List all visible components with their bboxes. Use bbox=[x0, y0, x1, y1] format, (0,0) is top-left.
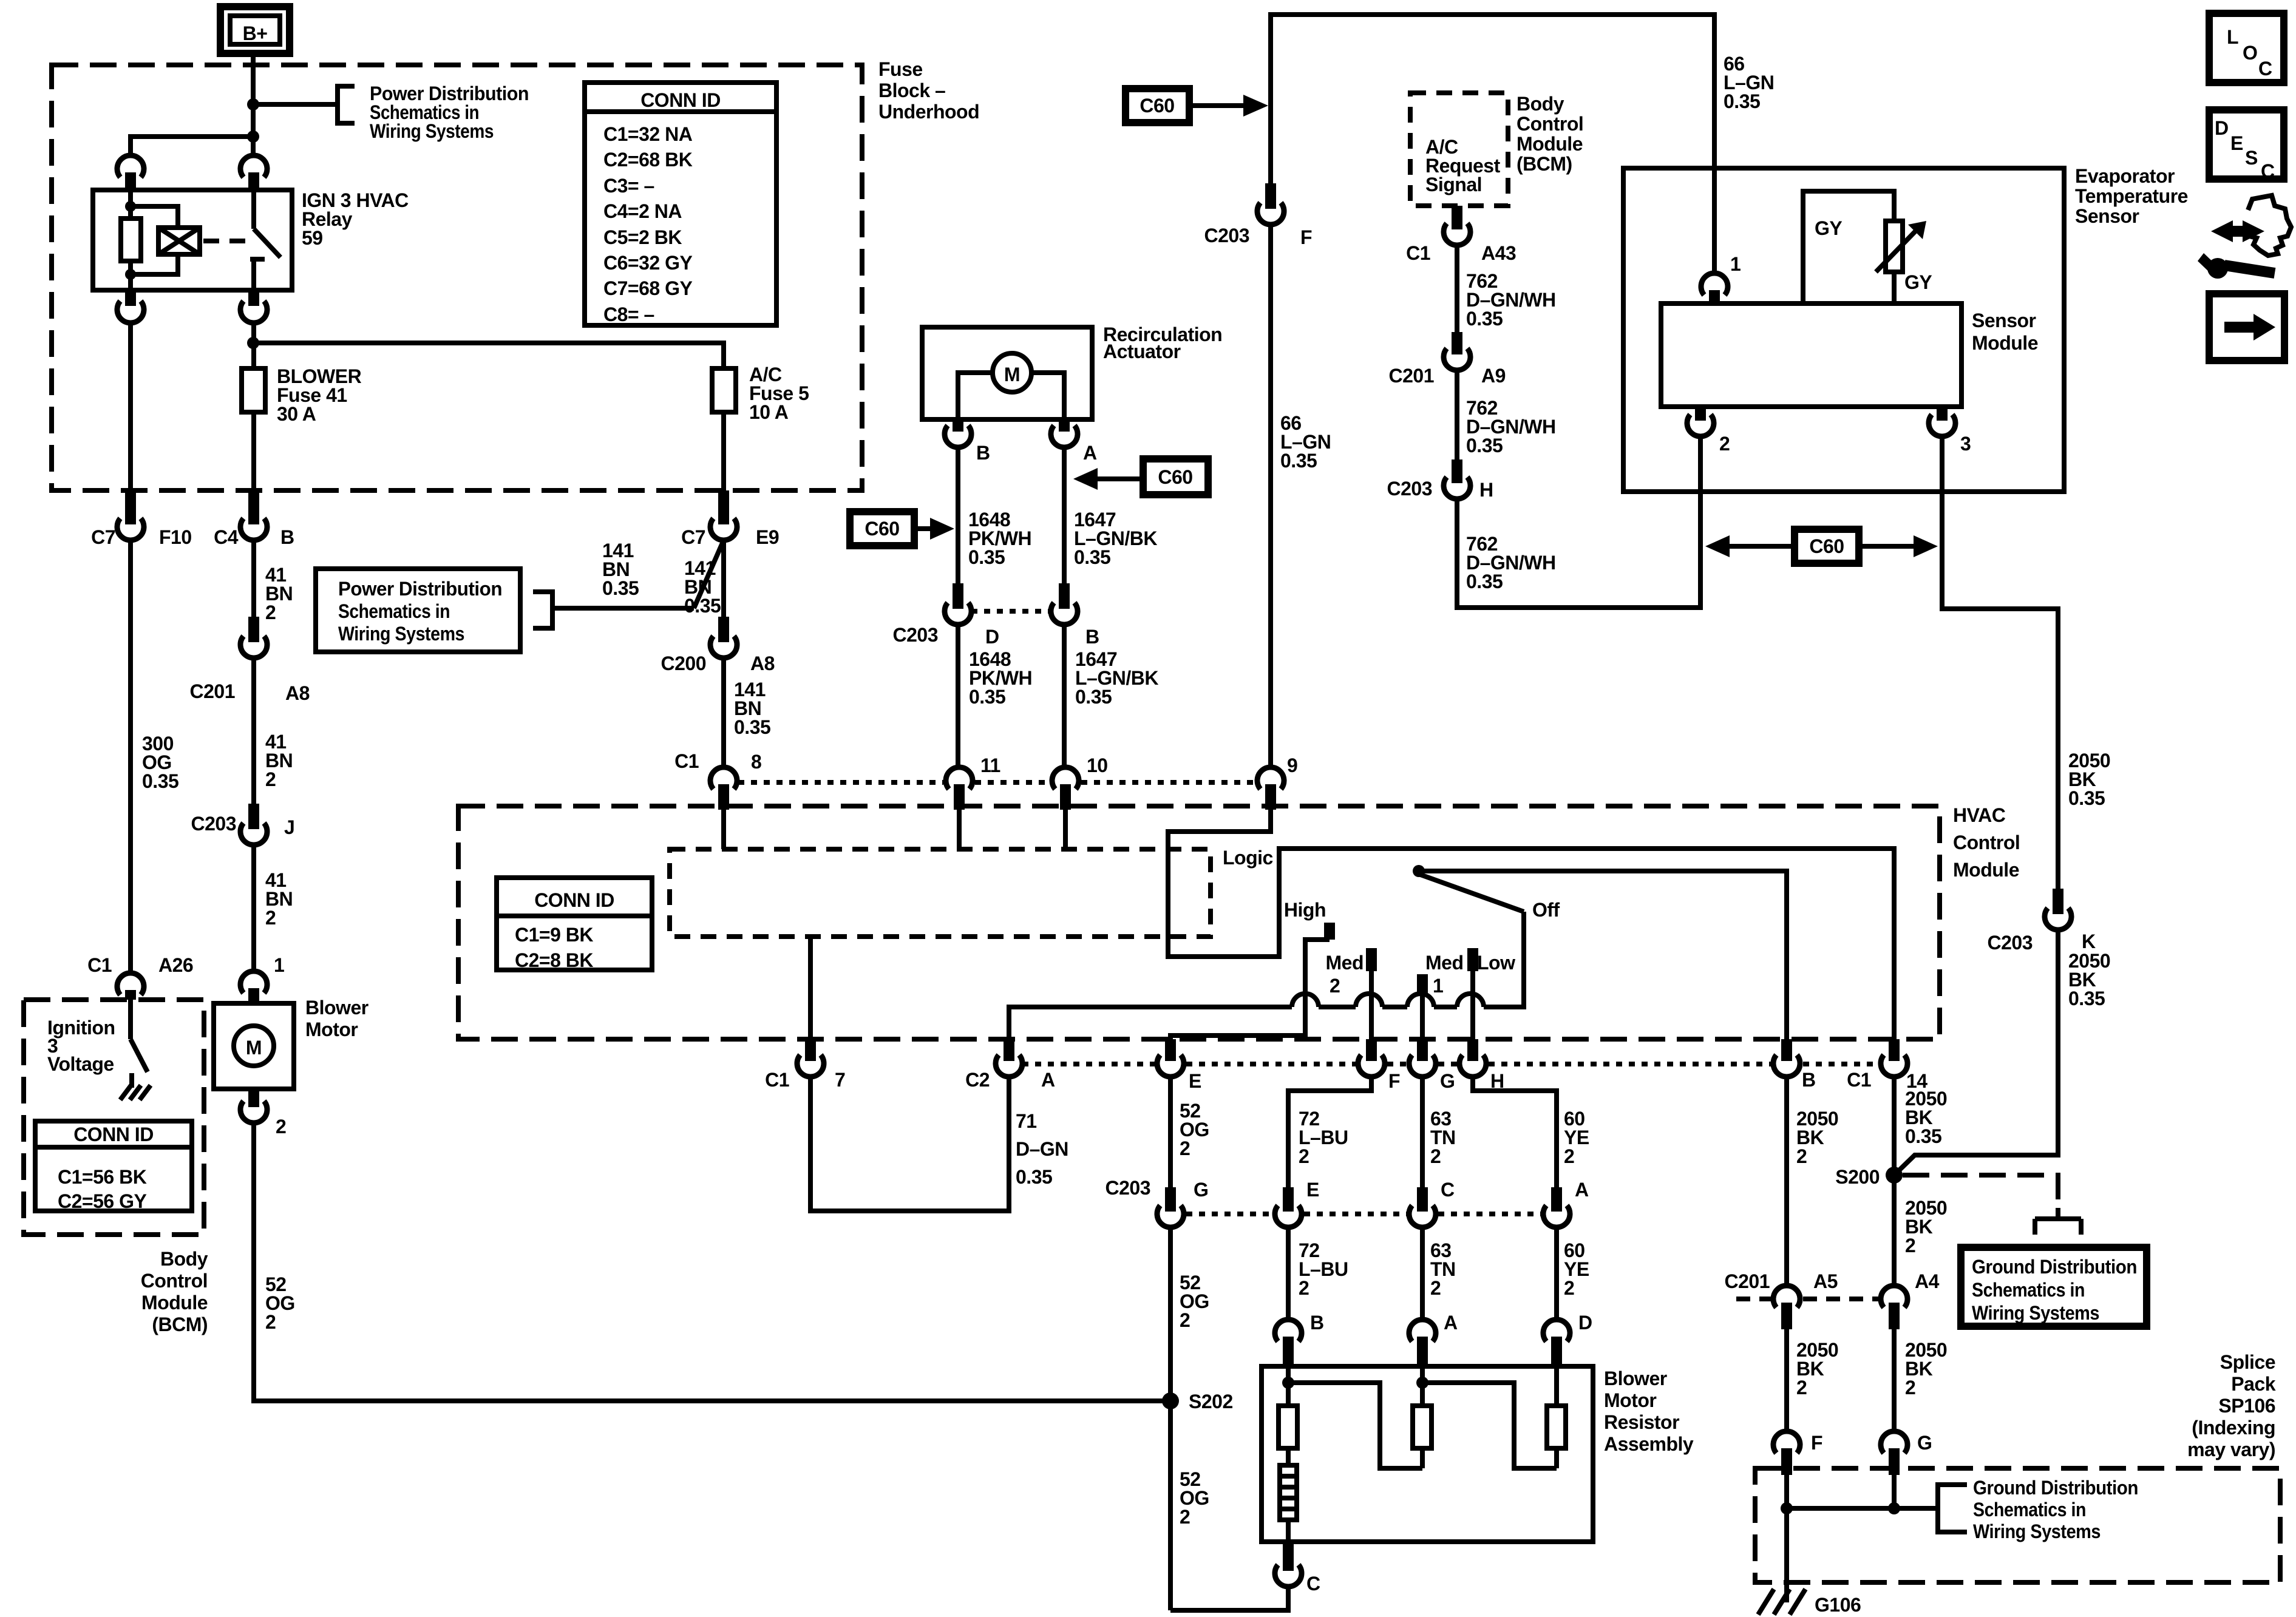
svg-text:E: E bbox=[1306, 1179, 1319, 1201]
svg-text:A26: A26 bbox=[158, 954, 193, 976]
node splice S202 bbox=[1162, 1392, 1179, 1409]
svg-text:Ground Distribution: Ground Distribution bbox=[1973, 1477, 2138, 1499]
svg-text:0.35: 0.35 bbox=[142, 770, 178, 792]
svg-text:Off: Off bbox=[1532, 899, 1560, 921]
svg-text:Splice: Splice bbox=[2220, 1351, 2275, 1373]
connector C203 pin G bbox=[1106, 1177, 1209, 1227]
svg-text:9: 9 bbox=[1287, 754, 1297, 776]
svg-text:Ground Distribution: Ground Distribution bbox=[1972, 1256, 2137, 1278]
label 2050 BK 2 (B) bbox=[1796, 1108, 1838, 1167]
svg-text:C203: C203 bbox=[1204, 225, 1250, 246]
svg-text:D: D bbox=[2215, 117, 2229, 139]
svg-text:F: F bbox=[1300, 226, 1312, 248]
svg-text:A4: A4 bbox=[1915, 1270, 1940, 1292]
label 41 BN 2 (1) bbox=[265, 564, 293, 623]
connector sensor pin 3 bbox=[1929, 407, 1971, 455]
svg-text:E9: E9 bbox=[756, 526, 779, 548]
svg-text:L: L bbox=[2227, 26, 2238, 48]
svg-text:Block –: Block – bbox=[878, 80, 945, 101]
label High bbox=[1284, 899, 1326, 921]
connector C203 pin C bbox=[1409, 1179, 1455, 1227]
label 52 OG 2 (mid) bbox=[1180, 1272, 1209, 1331]
logic dashed box bbox=[670, 849, 1211, 937]
svg-text:Blower: Blower bbox=[1604, 1368, 1667, 1389]
relay coil winding symbol bbox=[131, 206, 200, 274]
svg-text:1: 1 bbox=[1433, 975, 1443, 997]
connector resistor pin A bbox=[1409, 1312, 1458, 1366]
label 2050 BK 2 (F) bbox=[1796, 1339, 1838, 1398]
wire 141 BN vertical bbox=[721, 540, 726, 617]
wire to power distribution reference bbox=[253, 102, 338, 107]
connector C200/A8 bbox=[661, 617, 775, 674]
high contact wire bbox=[1170, 923, 1330, 1039]
CONN ID table fuse block bbox=[585, 83, 776, 325]
svg-text:1: 1 bbox=[1730, 253, 1741, 275]
svg-text:2: 2 bbox=[1180, 1506, 1190, 1528]
svg-text:G: G bbox=[1440, 1070, 1455, 1092]
svg-text:CONN ID: CONN ID bbox=[73, 1124, 154, 1145]
wire pivot to pin B bbox=[1419, 871, 1787, 1039]
svg-text:0.35: 0.35 bbox=[1466, 308, 1503, 330]
wire relay switch output down bbox=[251, 323, 256, 368]
label 14 2050 BK 0.35 bbox=[1905, 1088, 1947, 1147]
svg-text:2: 2 bbox=[265, 602, 276, 623]
recirculation actuator motor M bbox=[958, 353, 1064, 419]
relay switch bottom connector (87) bbox=[240, 290, 267, 323]
svg-text:C3= –: C3= – bbox=[603, 175, 654, 197]
label Logic bbox=[1223, 847, 1273, 869]
svg-text:2: 2 bbox=[265, 1311, 276, 1333]
label 63 TN 2 upper bbox=[1430, 1108, 1456, 1167]
wire logic to C1 pin 7 bbox=[808, 937, 813, 1039]
svg-text:Power Distribution: Power Distribution bbox=[338, 578, 502, 600]
svg-text:3: 3 bbox=[1960, 433, 1971, 455]
svg-text:Wiring Systems: Wiring Systems bbox=[1973, 1520, 2101, 1542]
bracket power distribution reference bbox=[338, 86, 355, 123]
power distribution schematics box bbox=[316, 569, 520, 652]
label 1647 L-GN/BK 0.35 lower bbox=[1075, 648, 1158, 708]
connector C203/K bbox=[1988, 889, 2096, 954]
wire 300 OG left column bbox=[128, 540, 133, 973]
BCM dashed box bbox=[24, 1000, 204, 1235]
svg-text:C203: C203 bbox=[1106, 1177, 1151, 1199]
label 52 OG 2 (E) bbox=[1180, 1100, 1209, 1159]
relay switch contact bbox=[250, 190, 280, 290]
ground distribution dashed box bbox=[1755, 1468, 2280, 1582]
connector HVAC pin 9 bbox=[1257, 754, 1297, 810]
label Sensor Module bbox=[1972, 310, 2038, 354]
svg-text:C60: C60 bbox=[1140, 95, 1174, 117]
svg-text:Motor: Motor bbox=[305, 1019, 358, 1040]
wire branch to relay coil bbox=[131, 137, 253, 155]
svg-text:71: 71 bbox=[1016, 1110, 1037, 1132]
low contact wire bbox=[1467, 948, 1478, 1039]
svg-text:A: A bbox=[1041, 1069, 1055, 1091]
wire 60 YE lower bbox=[1554, 1227, 1559, 1320]
A/C request signal dashed box bbox=[1410, 93, 1508, 206]
fuse A/C Fuse 5 10A bbox=[712, 368, 736, 412]
svg-text:High: High bbox=[1284, 899, 1326, 921]
svg-text:A: A bbox=[1575, 1179, 1589, 1201]
svg-text:C8= –: C8= – bbox=[603, 303, 654, 325]
svg-text:C: C bbox=[1441, 1179, 1455, 1201]
svg-text:D–GN: D–GN bbox=[1016, 1138, 1068, 1160]
node relay coil bottom junction bbox=[125, 269, 136, 280]
connector C1 pin 14 bbox=[1847, 1039, 1927, 1092]
C60 reference box top bbox=[1126, 89, 1189, 123]
svg-text:J: J bbox=[284, 816, 294, 838]
label Power Distribution Schematics in Wiring Systems bbox=[370, 83, 529, 142]
arrow C60 to wire 1648 bbox=[914, 518, 954, 540]
wire 52 OG to S202 bbox=[1168, 1227, 1173, 1610]
svg-text:SP106: SP106 bbox=[2218, 1395, 2275, 1417]
label 60 YE 2 lower bbox=[1564, 1239, 1589, 1299]
dashed wire S200 to ground reference bbox=[1903, 1175, 2058, 1208]
resistor R3 bbox=[1547, 1366, 1566, 1468]
svg-text:Module: Module bbox=[1972, 332, 2038, 354]
icon arrow box bbox=[2209, 294, 2284, 361]
icon wrench bbox=[2198, 253, 2275, 279]
svg-text:C201: C201 bbox=[1725, 1270, 1770, 1292]
wire 141 BN to HVAC bbox=[721, 658, 726, 767]
svg-text:A: A bbox=[1444, 1312, 1458, 1334]
svg-text:C7=68 GY: C7=68 GY bbox=[603, 277, 692, 299]
label 63 TN 2 lower bbox=[1430, 1239, 1456, 1299]
svg-text:2: 2 bbox=[265, 768, 276, 790]
label 52 OG 2 blower bbox=[265, 1273, 295, 1333]
wire relay coil output down bbox=[128, 323, 133, 490]
wire 63 TN lower bbox=[1420, 1227, 1425, 1320]
svg-text:A5: A5 bbox=[1813, 1270, 1838, 1292]
wire link B to R2 bbox=[1288, 1383, 1422, 1468]
C60 reference box right bbox=[1143, 459, 1208, 495]
svg-text:0.35: 0.35 bbox=[684, 595, 721, 617]
svg-text:C: C bbox=[1306, 1573, 1320, 1595]
ignition 3 voltage switch bbox=[131, 1000, 148, 1088]
label Evaporator Temperature Sensor bbox=[2075, 165, 2188, 227]
svg-text:S202: S202 bbox=[1189, 1391, 1233, 1412]
blower motor resistor assembly box bbox=[1262, 1366, 1593, 1542]
wire 762 segment 3 to sensor bbox=[1457, 436, 1700, 608]
svg-text:S: S bbox=[2245, 147, 2258, 169]
label Med 2 bbox=[1326, 952, 1364, 997]
node bus junction F bbox=[1781, 1502, 1793, 1514]
svg-text:(Indexing: (Indexing bbox=[2192, 1417, 2275, 1439]
svg-text:Assembly: Assembly bbox=[1604, 1433, 1694, 1455]
label 1648 PK/WH 0.35 lower bbox=[969, 648, 1032, 708]
svg-text:2: 2 bbox=[1564, 1145, 1574, 1167]
label Splice Pack SP106 bbox=[2187, 1351, 2276, 1460]
svg-text:0.35: 0.35 bbox=[2068, 988, 2105, 1009]
label Off bbox=[1532, 899, 1560, 921]
svg-text:B: B bbox=[1085, 626, 1099, 648]
connector C2 pin A bbox=[965, 1039, 1055, 1091]
fuse block underhood dashed box bbox=[52, 65, 862, 490]
label 2050 BK 2 (below S200) bbox=[1905, 1197, 1947, 1256]
svg-text:GY: GY bbox=[1815, 217, 1842, 239]
svg-text:Control: Control bbox=[1517, 113, 1583, 135]
connector C203/J bbox=[191, 804, 295, 845]
svg-text:0.35: 0.35 bbox=[969, 686, 1005, 708]
label GY right bbox=[1904, 271, 1932, 293]
evaporator temperature sensor box bbox=[1623, 168, 2064, 492]
connector C2 pin H bbox=[1459, 1039, 1504, 1092]
svg-text:CONN ID: CONN ID bbox=[534, 889, 614, 911]
connector C1/A43 bbox=[1406, 206, 1516, 264]
svg-text:0.35: 0.35 bbox=[1075, 686, 1112, 708]
svg-text:Control: Control bbox=[141, 1270, 208, 1292]
connector C203 pin A bbox=[1543, 1179, 1589, 1227]
battery B+ terminal box bbox=[220, 7, 290, 53]
svg-text:2: 2 bbox=[1796, 1145, 1807, 1167]
connector C1/A26 BCM bbox=[87, 954, 193, 1000]
label 2050 BK 0.35 (1) bbox=[2068, 750, 2110, 809]
label 141 BN 0.35 (left) bbox=[602, 540, 639, 599]
svg-text:30 A: 30 A bbox=[277, 403, 316, 425]
node switch pivot bbox=[1413, 865, 1425, 877]
wire branch to A/C fuse bbox=[253, 343, 724, 368]
svg-text:11: 11 bbox=[980, 754, 1000, 776]
crossover bump 4 bbox=[1457, 994, 1484, 1007]
label 71 D-GN 0.35 bbox=[1016, 1110, 1068, 1188]
svg-text:Body: Body bbox=[1517, 93, 1564, 115]
label GY left bbox=[1815, 217, 1842, 239]
node junction to A/C fuse branch bbox=[247, 337, 259, 349]
wire 2050 BK column B bbox=[1784, 1077, 1789, 1286]
svg-text:Body: Body bbox=[160, 1248, 208, 1270]
svg-text:2: 2 bbox=[1299, 1277, 1309, 1299]
svg-text:Blower: Blower bbox=[305, 997, 369, 1019]
svg-text:GY: GY bbox=[1904, 271, 1932, 293]
label 2050 BK 0.35 (2) bbox=[2068, 950, 2110, 1009]
svg-text:1: 1 bbox=[274, 954, 284, 976]
svg-text:C1=56 BK: C1=56 BK bbox=[58, 1166, 147, 1188]
svg-text:E: E bbox=[1189, 1070, 1201, 1092]
svg-text:C201: C201 bbox=[190, 680, 236, 702]
svg-text:M: M bbox=[1004, 364, 1020, 385]
svg-text:C: C bbox=[2258, 58, 2272, 80]
svg-text:0.35: 0.35 bbox=[1074, 546, 1110, 568]
wire 71 D-GN loop bbox=[810, 1077, 1009, 1211]
svg-text:HVAC: HVAC bbox=[1953, 804, 2006, 826]
svg-text:0.35: 0.35 bbox=[968, 546, 1005, 568]
connector blower motor pin 2 bbox=[240, 1089, 286, 1137]
svg-text:C60: C60 bbox=[864, 518, 899, 540]
connector C7/F10 fuse block exit bbox=[91, 490, 192, 548]
svg-text:2: 2 bbox=[1796, 1377, 1807, 1398]
connector C2 pin B bbox=[1773, 1039, 1816, 1091]
crossover bump 1 bbox=[1292, 994, 1319, 1007]
label 2050 BK 2 (G) bbox=[1905, 1339, 1947, 1398]
wire 41 BN segment 2 bbox=[251, 658, 256, 804]
ground symbol ignition bbox=[120, 1085, 151, 1100]
recirculation actuator box bbox=[922, 327, 1092, 419]
wire pin 10 into logic bbox=[1063, 810, 1068, 849]
svg-text:A9: A9 bbox=[1481, 365, 1506, 387]
wire 1648 PK/WH lower bbox=[956, 625, 960, 767]
connector C7/E9 fuse block exit bbox=[681, 490, 779, 548]
svg-text:F: F bbox=[1388, 1070, 1400, 1092]
svg-text:Sensor: Sensor bbox=[2075, 205, 2139, 227]
CONN ID table BCM bbox=[35, 1121, 192, 1212]
wire blower fuse down bbox=[251, 412, 256, 490]
connector blower motor pin 1 bbox=[240, 954, 284, 1003]
connector C1 pin 7 bbox=[765, 1039, 845, 1091]
connector C203/H bbox=[1387, 459, 1493, 501]
svg-text:2: 2 bbox=[1564, 1277, 1574, 1299]
thermal limiter bbox=[1280, 1448, 1297, 1542]
svg-text:C1=9 BK: C1=9 BK bbox=[515, 924, 593, 946]
wire 762 segment 2 bbox=[1455, 370, 1459, 459]
svg-text:0.35: 0.35 bbox=[1280, 450, 1317, 472]
svg-text:C203: C203 bbox=[1387, 478, 1433, 500]
svg-text:C60: C60 bbox=[1809, 535, 1844, 557]
wire A/C fuse down bbox=[721, 412, 726, 490]
svg-text:2: 2 bbox=[1905, 1235, 1915, 1256]
connector actuator pin B bbox=[945, 419, 990, 464]
svg-text:C201: C201 bbox=[1389, 365, 1435, 387]
svg-text:0.35: 0.35 bbox=[602, 577, 639, 599]
svg-text:C: C bbox=[2261, 160, 2275, 182]
connector line C203 D-B dotted bbox=[971, 609, 1051, 614]
label Body Control Module BCM right bbox=[1517, 93, 1583, 175]
svg-text:C2: C2 bbox=[965, 1069, 990, 1091]
connector C4/B fuse block exit bbox=[214, 490, 294, 548]
svg-text:A: A bbox=[1083, 442, 1097, 464]
svg-text:Temperature: Temperature bbox=[2075, 185, 2188, 207]
label Fuse Block Underhood bbox=[878, 58, 979, 123]
relay coil bottom connector (86) bbox=[117, 290, 144, 323]
svg-text:C60: C60 bbox=[1158, 466, 1192, 488]
wire link A to R3 bbox=[1422, 1383, 1557, 1468]
wire 2050 BK to F bbox=[1784, 1329, 1789, 1431]
label 141 BN 0.35 (low) bbox=[734, 679, 770, 738]
label 1647 L-GN/BK 0.35 upper bbox=[1074, 509, 1157, 568]
svg-text:0.35: 0.35 bbox=[1016, 1166, 1052, 1188]
label Low bbox=[1477, 952, 1515, 974]
wire B+ feed into fuse block bbox=[251, 53, 256, 155]
connector HVAC C1 pin 8 bbox=[674, 750, 761, 810]
ground G106 bbox=[1758, 1577, 1805, 1615]
wire 2050 BK to G bbox=[1892, 1329, 1897, 1431]
svg-text:Logic: Logic bbox=[1223, 847, 1273, 869]
wire 2050 BK column C1-14 bbox=[1892, 1077, 1897, 1286]
label C201 bottom bbox=[1725, 1270, 1770, 1292]
blower motor box bbox=[214, 1003, 294, 1089]
label G106 bbox=[1815, 1594, 1861, 1616]
connector HVAC pin 10 bbox=[1052, 754, 1108, 810]
svg-text:Schematics in: Schematics in bbox=[1973, 1499, 2086, 1520]
svg-text:A8: A8 bbox=[750, 653, 775, 674]
blower switch feed line bbox=[1009, 912, 1524, 1039]
bracket power distribution 2 bbox=[533, 592, 552, 628]
svg-text:C2=8 BK: C2=8 BK bbox=[515, 949, 593, 971]
svg-text:0.35: 0.35 bbox=[1905, 1125, 1941, 1147]
connector line C201 dashes bbox=[1736, 1297, 1878, 1301]
svg-text:O: O bbox=[2243, 42, 2257, 64]
svg-text:0.35: 0.35 bbox=[1724, 90, 1760, 112]
wire splice pack bus bbox=[1787, 1475, 1938, 1577]
CONN ID table HVAC bbox=[497, 878, 652, 971]
connector sensor pin 2 bbox=[1687, 407, 1730, 455]
label S200 bbox=[1835, 1166, 1880, 1188]
svg-text:C7: C7 bbox=[681, 526, 705, 548]
svg-text:F10: F10 bbox=[159, 526, 192, 548]
connector line C1 top dotted bbox=[738, 780, 1255, 785]
relay IGN 3 HVAC box bbox=[93, 190, 292, 290]
label A/C Fuse 5 10A bbox=[749, 364, 809, 423]
svg-text:Resistor: Resistor bbox=[1604, 1411, 1679, 1433]
svg-text:Fuse: Fuse bbox=[878, 58, 923, 80]
connector resistor pin B bbox=[1275, 1312, 1324, 1366]
wire 41 BN right column bbox=[251, 540, 256, 617]
svg-text:Underhood: Underhood bbox=[878, 101, 979, 123]
node relay coil top junction bbox=[125, 201, 136, 212]
svg-text:2: 2 bbox=[1330, 975, 1340, 997]
icon hand double arrow bbox=[2211, 220, 2264, 242]
svg-text:2: 2 bbox=[265, 907, 276, 929]
svg-text:2: 2 bbox=[1180, 1137, 1190, 1159]
svg-text:B: B bbox=[1310, 1312, 1324, 1334]
svg-text:0.35: 0.35 bbox=[734, 716, 770, 738]
wire 72 L-BU lower bbox=[1286, 1227, 1291, 1320]
wire 2050 BK to S200 bbox=[1894, 930, 2058, 1175]
connector C203 pin B bbox=[1051, 583, 1099, 648]
svg-text:C4=2 NA: C4=2 NA bbox=[603, 200, 682, 222]
svg-text:C203: C203 bbox=[191, 813, 237, 835]
svg-text:E: E bbox=[2230, 132, 2243, 154]
svg-text:2: 2 bbox=[1430, 1277, 1441, 1299]
svg-text:G106: G106 bbox=[1815, 1594, 1861, 1616]
svg-text:C1: C1 bbox=[1406, 242, 1430, 264]
connector SP106 pin G bbox=[1881, 1431, 1932, 1475]
relay actuation dashed link bbox=[203, 239, 249, 243]
icon DESC box bbox=[2209, 110, 2284, 182]
connector C201/A9 bbox=[1389, 332, 1506, 387]
label 72 L-BU 2 upper bbox=[1299, 1108, 1348, 1167]
svg-text:B: B bbox=[976, 442, 990, 464]
wire pin 8 into logic bbox=[721, 810, 726, 849]
svg-text:A8: A8 bbox=[285, 682, 310, 704]
svg-text:C5=2 BK: C5=2 BK bbox=[603, 226, 682, 248]
connector HVAC pin 11 bbox=[946, 754, 1000, 810]
svg-text:C6=32 GY: C6=32 GY bbox=[603, 252, 692, 274]
blower motor M symbol bbox=[234, 1026, 274, 1066]
svg-text:Actuator: Actuator bbox=[1103, 341, 1181, 362]
node junction on B+ feed bbox=[247, 98, 259, 110]
label 72 L-BU 2 lower bbox=[1299, 1239, 1348, 1299]
svg-text:Med: Med bbox=[1425, 952, 1464, 974]
svg-text:(BCM): (BCM) bbox=[1517, 153, 1572, 175]
svg-text:Low: Low bbox=[1477, 952, 1515, 974]
ground reference fork bbox=[2035, 1208, 2081, 1235]
svg-text:Sensor: Sensor bbox=[1972, 310, 2036, 331]
svg-text:Wiring Systems: Wiring Systems bbox=[370, 120, 494, 142]
bracket ground distribution 2 bbox=[1938, 1485, 1967, 1532]
connector C203 pin D bbox=[893, 583, 999, 648]
svg-text:Med: Med bbox=[1326, 952, 1364, 974]
svg-text:C1: C1 bbox=[1847, 1069, 1871, 1091]
connector resistor pin D bbox=[1543, 1312, 1592, 1366]
svg-text:B: B bbox=[280, 526, 294, 548]
wire 762 segment 1 bbox=[1455, 245, 1459, 332]
wire 66 L-GN top run bbox=[1271, 15, 1714, 273]
svg-text:Voltage: Voltage bbox=[47, 1053, 114, 1075]
label 762 D-GN/WH 0.35 (1) bbox=[1466, 270, 1556, 330]
connector C201 pin A4 bbox=[1881, 1270, 1940, 1329]
svg-text:Signal: Signal bbox=[1425, 174, 1482, 195]
resistor R1 bbox=[1279, 1366, 1297, 1448]
